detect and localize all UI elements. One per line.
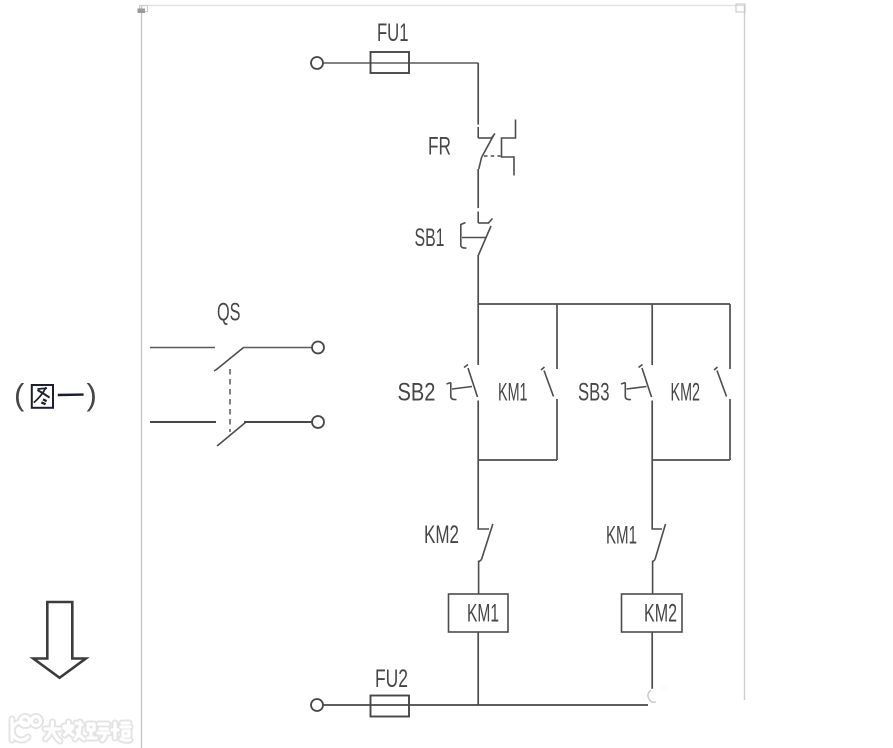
wire lower connector left branch (478, 459, 557, 461)
svg-text:FR: FR (428, 133, 451, 161)
wire bus to KM2 aux contact (729, 304, 731, 369)
contact KM2 (NC interlock) (478, 520, 493, 594)
svg-text:): ) (87, 377, 97, 412)
down arrow (33, 602, 86, 678)
wire QS upper right (243, 347, 312, 349)
caption (图一) (14, 377, 97, 412)
frame right edge (744, 5, 746, 700)
wire vertical from FU1 corner down to FR (477, 63, 479, 125)
pushbutton SB2 (NO, start) (447, 365, 478, 400)
wire top horizontal through FU1 (324, 62, 479, 64)
contact KM1 (NO holding) (541, 367, 554, 397)
wire QS lower right (244, 421, 312, 423)
frame corner handle top-left (138, 6, 148, 14)
frame left edge (141, 5, 143, 748)
wire KM1 contact down (556, 399, 558, 460)
wire bus to SB2 (477, 304, 479, 365)
switch QS lower blade (217, 422, 246, 446)
svg-text:KM1: KM1 (606, 522, 637, 550)
thermal relay contact FR (NC) (478, 127, 500, 169)
wire FR to SB1 (477, 169, 479, 208)
pushbutton SB1 (NC) (461, 212, 493, 256)
wire coil KM2 down (651, 632, 653, 689)
wire bottom horizontal through FU2 (324, 704, 649, 706)
switch QS upper pole line (150, 347, 215, 349)
coil KM1 (449, 594, 509, 632)
node L1 terminal circle (top left) (311, 57, 323, 69)
pushbutton SB3 (NO, start) (621, 365, 652, 400)
wire SB2 node down to KM2 interlock (477, 460, 479, 520)
svg-text:FU1: FU1 (377, 19, 409, 47)
watermark logo bottom-left (12, 717, 130, 742)
frame top edge (139, 5, 744, 7)
fuse FU1 (371, 52, 410, 73)
svg-text:FU2: FU2 (375, 665, 408, 693)
wire SB1 to bus (477, 255, 479, 305)
svg-text:KM1: KM1 (498, 379, 528, 407)
wire bus to KM1 aux contact (556, 304, 558, 369)
svg-text:SB2: SB2 (398, 379, 436, 407)
node terminal circle QS lower (312, 416, 324, 428)
wire SB3 node down to KM1 interlock (651, 460, 653, 520)
svg-text:KM2: KM2 (671, 379, 701, 407)
wire KM2 contact down (729, 399, 731, 460)
svg-text:SB1: SB1 (415, 224, 445, 252)
QS mechanical link (dashed) (229, 369, 231, 432)
switch QS upper blade (214, 348, 244, 372)
svg-text:SB3: SB3 (578, 379, 610, 407)
wire coil KM1 to bottom wire (477, 632, 479, 705)
coil KM2 (622, 594, 683, 632)
wire top bus horizontal (478, 303, 730, 305)
wire SB3 down (651, 401, 653, 461)
switch QS lower pole line (150, 421, 216, 423)
wire bus to SB3 (651, 304, 653, 365)
wire SB2 down (477, 401, 479, 461)
watermark smudge over junction (647, 684, 668, 706)
wire lower connector right branch (652, 459, 730, 461)
thermal element FR (heater zigzag) (502, 120, 516, 176)
node terminal circle QS upper (312, 342, 324, 354)
contact KM2 (NO holding) (714, 367, 727, 397)
frame corner handle top-right (736, 4, 745, 12)
contact KM1 (NC interlock) (652, 520, 665, 594)
fuse FU2 (371, 696, 410, 717)
svg-text:KM1: KM1 (467, 600, 499, 628)
node L2 terminal circle (bottom left) (311, 699, 323, 711)
svg-text:KM2: KM2 (424, 521, 459, 549)
svg-text:(: ( (14, 377, 25, 412)
svg-text:KM2: KM2 (644, 600, 677, 628)
svg-text:QS: QS (217, 299, 241, 327)
